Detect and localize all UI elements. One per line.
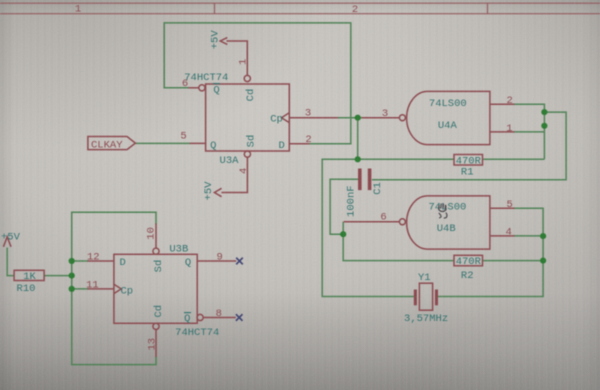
U3A pin 3 Cp clock mark — [282, 113, 290, 123]
net label CLKAY flag — [88, 137, 135, 150]
U3A pin 6 stub — [188, 87, 199, 89]
junction U4B output / C1 branch — [340, 231, 346, 237]
resistor R2 body — [454, 255, 483, 265]
junction on R1 row — [355, 156, 361, 162]
+5V supply arrow below U3A — [214, 188, 221, 196]
U3B pin 13 stub — [155, 329, 157, 357]
wire: U4B input pin 5 bend down to crystal right — [437, 208, 544, 296]
drawing frame top border — [0, 3, 600, 14]
U3A pin 2 D stub — [289, 143, 309, 145]
U3B pin 9 Q wire — [197, 260, 236, 262]
U3A pin 3 stub — [289, 117, 338, 119]
U4A output pin 3 stub — [362, 117, 400, 119]
U3B pin 8 wire — [203, 317, 236, 319]
U4A output bubble — [399, 115, 405, 121]
resistor R1 body — [454, 155, 483, 166]
no-connect X at pin 9 — [236, 258, 243, 265]
wire: U4A input pin 1 bend — [514, 131, 544, 133]
U3B pin 10 Sd bubble — [153, 248, 159, 254]
junction U4A pin2 / C1 loop — [541, 109, 547, 115]
U3B pin 8 Q̄ bubble — [197, 314, 203, 320]
wire: R10 left up to +5V — [7, 248, 14, 276]
mouse cursor artifact — [439, 204, 447, 219]
crystal Y1 right plate — [435, 290, 438, 306]
U3A pin 4 Sd bubble — [244, 151, 250, 157]
resistor R10 body — [14, 270, 44, 280]
+5V supply arrow at R10 — [3, 237, 11, 247]
U4A input pin 1 stub — [490, 131, 515, 133]
wire: R1 row left segment to crystal branch — [322, 159, 454, 296]
wire: CLKAY net to U3A Q pin 5 — [135, 142, 190, 144]
wire: U4B input pin 4 — [514, 235, 543, 237]
wire: U3B D pin 12 net — [72, 260, 88, 262]
U3B pin 10 stub — [155, 224, 157, 249]
wire: U4A input pin 2 bend — [514, 104, 544, 159]
crystal Y1 body — [419, 283, 432, 310]
U4B output bubble — [399, 219, 405, 225]
wire: U3B surround loop Sd to Cd — [72, 212, 156, 364]
U3A pin 1 Cd bubble — [244, 75, 250, 81]
+5V supply arrow above U3A — [220, 38, 227, 45]
U4B output pin 6 — [344, 221, 400, 223]
wire: R1 right to U4A input column — [483, 158, 545, 160]
wire: U4B output pin 6 down to R2 row — [343, 222, 454, 261]
crystal Y1 left plate — [414, 290, 417, 306]
U4B input pin 5 stub — [490, 207, 515, 209]
wire: U3A Cp(3) to U4A output(3) — [336, 117, 362, 119]
U3B pin 11 stub — [88, 288, 114, 290]
U3B pin 11 Cp clock mark — [114, 284, 121, 293]
wire: C1 left plate branch to U4B output net — [330, 179, 358, 234]
junction R2 right — [540, 258, 546, 264]
flip-flop U3B body — [114, 254, 197, 323]
U3A pin 4 wire to +5V — [221, 157, 247, 193]
junction U3B Cp net — [69, 286, 75, 292]
wire: R2 right to U4B input column — [483, 260, 544, 262]
U4B input pin 4 stub — [490, 235, 515, 237]
capacitor C1 plates — [358, 169, 362, 191]
U4A input pin 2 stub — [490, 103, 515, 105]
wire: C1 right plate loop to U4A input column — [372, 112, 566, 180]
wire: tap from Cp net down to R1 row — [357, 118, 359, 160]
wire: R10 right to net column — [44, 275, 71, 277]
wire: U3B Cp pin 11 net — [72, 288, 88, 290]
junction U4A pin1 — [541, 123, 547, 129]
U3A pin 5 Q stub — [190, 142, 206, 144]
nand gate U4A body — [407, 91, 490, 144]
junction U4B pin4 — [540, 233, 546, 239]
U3B pin 12 D stub — [88, 260, 114, 262]
junction on Cp net — [355, 115, 361, 121]
U3A pin 1 wire to +5V — [227, 41, 248, 76]
nand gate U4B body — [407, 196, 490, 249]
wire: U3A feedback loop Q̄(6) to D(2) — [164, 23, 351, 144]
U3A pin 6 Q̄ bubble — [199, 85, 205, 91]
U3B pin 13 Cd bubble — [153, 323, 159, 329]
junction R10 net — [69, 273, 75, 279]
flip-flop U3A body — [206, 84, 290, 151]
no-connect X at pin 8 — [236, 314, 243, 321]
junction U3B D net — [69, 258, 75, 264]
